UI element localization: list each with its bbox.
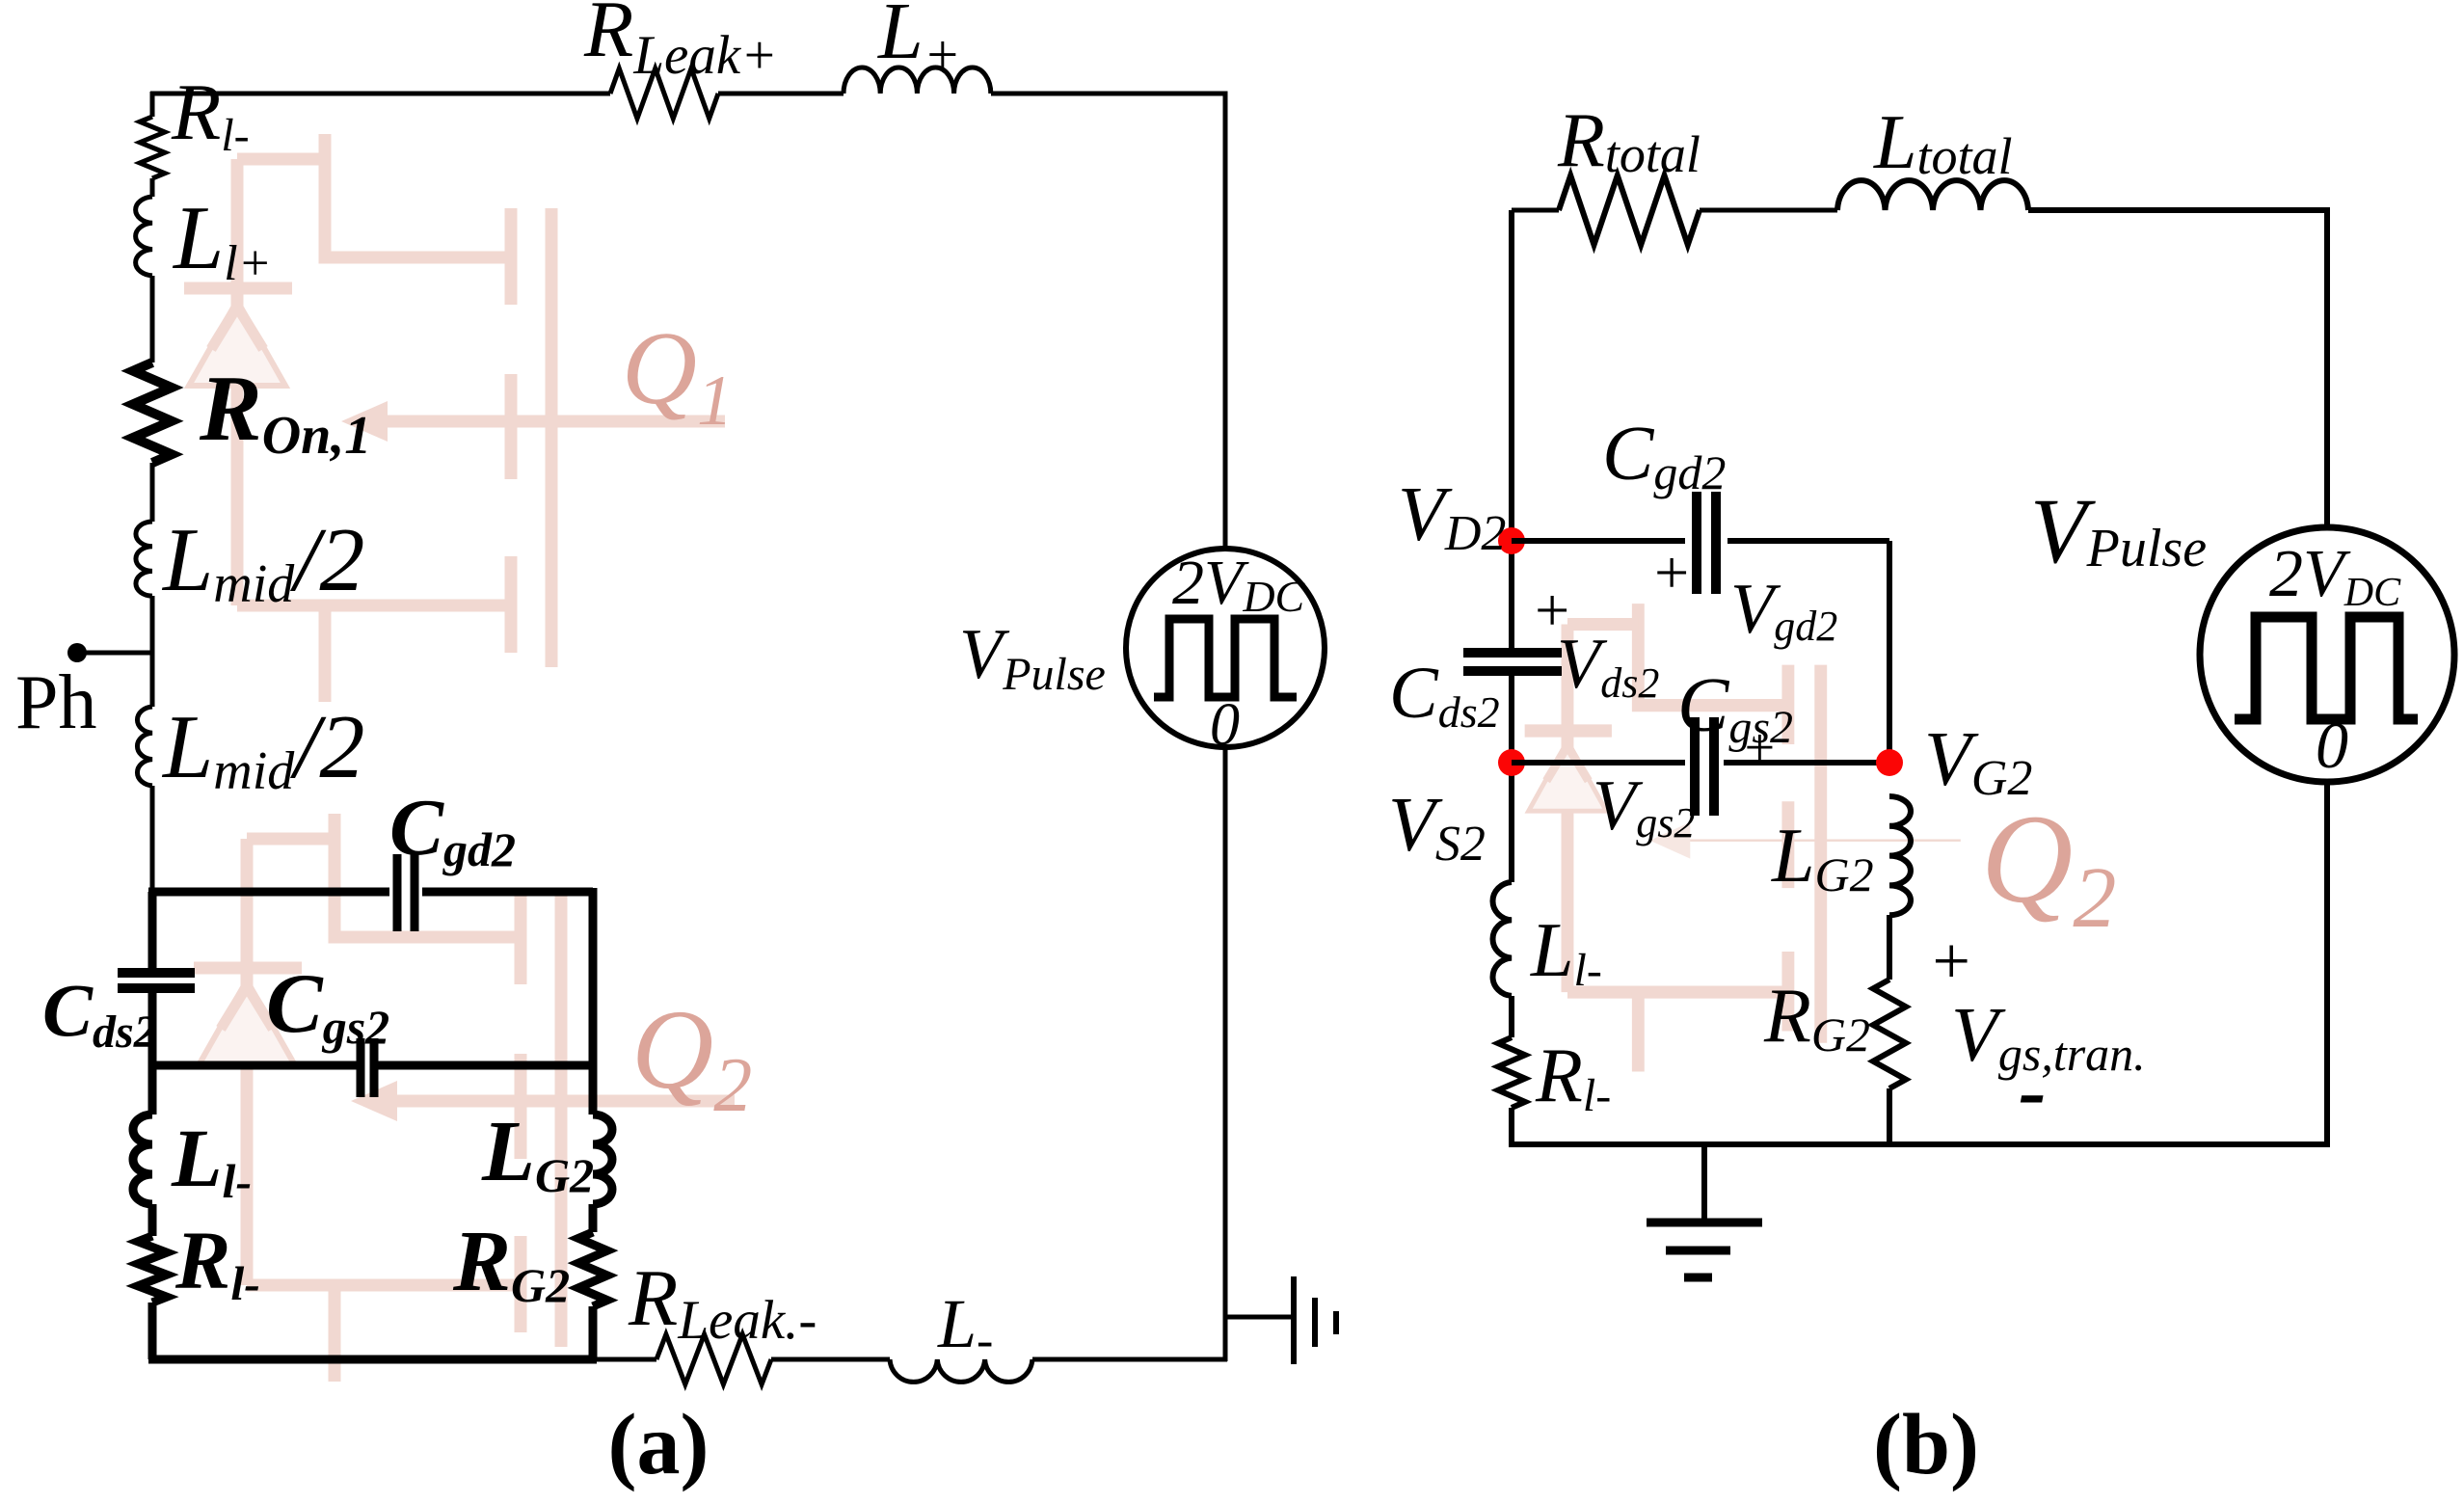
wire xyxy=(148,1204,157,1236)
ground (b) stem xyxy=(1701,1144,1707,1220)
inductor L_total xyxy=(1837,180,2028,210)
wire xyxy=(1509,1108,1514,1144)
resistor R_l- (a) xyxy=(138,1236,167,1303)
wire source bottom to corner xyxy=(1223,747,1228,1361)
wire box top left segment xyxy=(148,888,389,897)
resistor R_G2 (a) xyxy=(578,1232,607,1306)
svg-text:0: 0 xyxy=(2316,709,2348,782)
wire box bottom xyxy=(148,1356,597,1364)
resistor R_Leak+ xyxy=(610,68,718,119)
transistor Q2 of (b) (faded) xyxy=(1525,604,1961,1071)
inductor L_l- (a) xyxy=(133,1115,152,1204)
wire (b) top right xyxy=(2028,210,2327,526)
wire xyxy=(150,463,155,522)
capacitor C_gd2 xyxy=(397,854,415,931)
wire L+ to corner and down to source xyxy=(991,94,1225,549)
wire bottom right xyxy=(1032,1357,1227,1362)
wire (b) left rail xyxy=(1509,210,1514,648)
pulse source circle (a) xyxy=(1126,549,1325,747)
inductor L_mid/2 upper xyxy=(136,522,152,596)
node V_D2 dot xyxy=(1498,527,1525,554)
pulse source circle (b) xyxy=(2200,527,2454,782)
wire xyxy=(1700,208,1837,213)
resistor R_l- (b) xyxy=(1498,1037,1525,1108)
ground (b) bar1 xyxy=(1647,1219,1762,1227)
resistor R_G2 (b) xyxy=(1873,980,1906,1088)
ground (a) bar3 xyxy=(1333,1311,1339,1334)
capacitor C_gd2 (b) xyxy=(1697,492,1716,594)
wire xyxy=(771,1357,890,1362)
wire (b) gate branch upper xyxy=(1887,541,1892,763)
wire (b) box top xyxy=(1512,538,1685,544)
wire xyxy=(150,276,155,363)
wire bottom to R_Leak.- xyxy=(593,1357,656,1362)
ground (a) bar1 xyxy=(1291,1276,1297,1364)
wire box right lower xyxy=(589,1065,598,1115)
wire (b) top left xyxy=(1512,208,1559,213)
square wave (b) xyxy=(2235,617,2418,719)
svg-text:(b): (b) xyxy=(1873,1397,1979,1492)
resistor R_On,1 (bold) xyxy=(133,363,172,463)
wire box top right segment xyxy=(422,888,593,897)
wire (b) mid-left xyxy=(1512,760,1685,765)
capacitor C_ds2 (b) xyxy=(1463,653,1562,671)
wire xyxy=(1509,996,1514,1037)
inductor L_l- (b) xyxy=(1492,882,1512,996)
svg-text:+: + xyxy=(1741,718,1778,778)
wire top-left to R_Leak+ xyxy=(150,92,610,96)
node V_G2 dot xyxy=(1876,749,1903,776)
resistor R_Leak.- xyxy=(656,1334,771,1384)
wire xyxy=(150,786,155,892)
wire (b) source bottom xyxy=(2324,783,2330,1144)
svg-text:-: - xyxy=(2019,1044,2047,1137)
ground (b) bar3 xyxy=(1684,1274,1712,1282)
svg-text:+: + xyxy=(1928,925,1973,999)
wire (b) mid-right xyxy=(1724,760,1889,765)
wire box left upper xyxy=(148,892,157,968)
resistor R_l- xyxy=(140,117,165,178)
svg-text:+: + xyxy=(1650,538,1692,606)
svg-text:Ph: Ph xyxy=(15,660,97,745)
inductor L_G2 (b) xyxy=(1889,796,1911,915)
wire xyxy=(589,1306,598,1359)
transistor Q1 (faded) xyxy=(184,134,725,702)
wire xyxy=(148,1065,157,1115)
wire xyxy=(589,1204,598,1232)
node Ph stub xyxy=(77,651,152,656)
ground (b) bar2 xyxy=(1666,1247,1730,1255)
ground (a) bar2 xyxy=(1312,1298,1318,1347)
capacitor C_gs2 xyxy=(361,1038,374,1097)
wire (b) bottom xyxy=(1509,1141,2330,1147)
node V_S2 dot xyxy=(1498,749,1525,776)
wire xyxy=(1509,676,1514,882)
svg-text:(a): (a) xyxy=(608,1397,710,1492)
wire xyxy=(150,596,155,707)
transistor Q2 of (a) (faded) xyxy=(194,814,735,1382)
inductor L+ xyxy=(844,67,991,94)
inductor L- xyxy=(890,1359,1032,1382)
inductor L_mid/2 lower xyxy=(137,707,152,786)
wire box mid-right xyxy=(378,1061,593,1070)
wire R_Leak+ to L+ xyxy=(718,92,844,96)
inductor L_l+ xyxy=(136,197,152,276)
wire box right upper xyxy=(589,888,598,1065)
wire xyxy=(1727,538,1889,544)
wire xyxy=(150,92,155,117)
inductor L_G2 (a) xyxy=(593,1115,612,1204)
node Ph dot xyxy=(67,643,87,662)
wire xyxy=(150,178,155,197)
capacitor C_ds2 xyxy=(118,973,195,988)
square wave (a) xyxy=(1154,619,1297,697)
ground (a) stub xyxy=(1225,1315,1292,1320)
wire xyxy=(148,1303,157,1359)
svg-text:0: 0 xyxy=(1210,692,1240,758)
capacitor C_gs2 (b) xyxy=(1695,717,1714,816)
wire box mid-left xyxy=(152,1061,357,1070)
wire xyxy=(1887,1088,1892,1144)
wire xyxy=(1887,915,1892,980)
wire box left mid xyxy=(148,993,157,1065)
resistor R_total xyxy=(1559,175,1700,245)
